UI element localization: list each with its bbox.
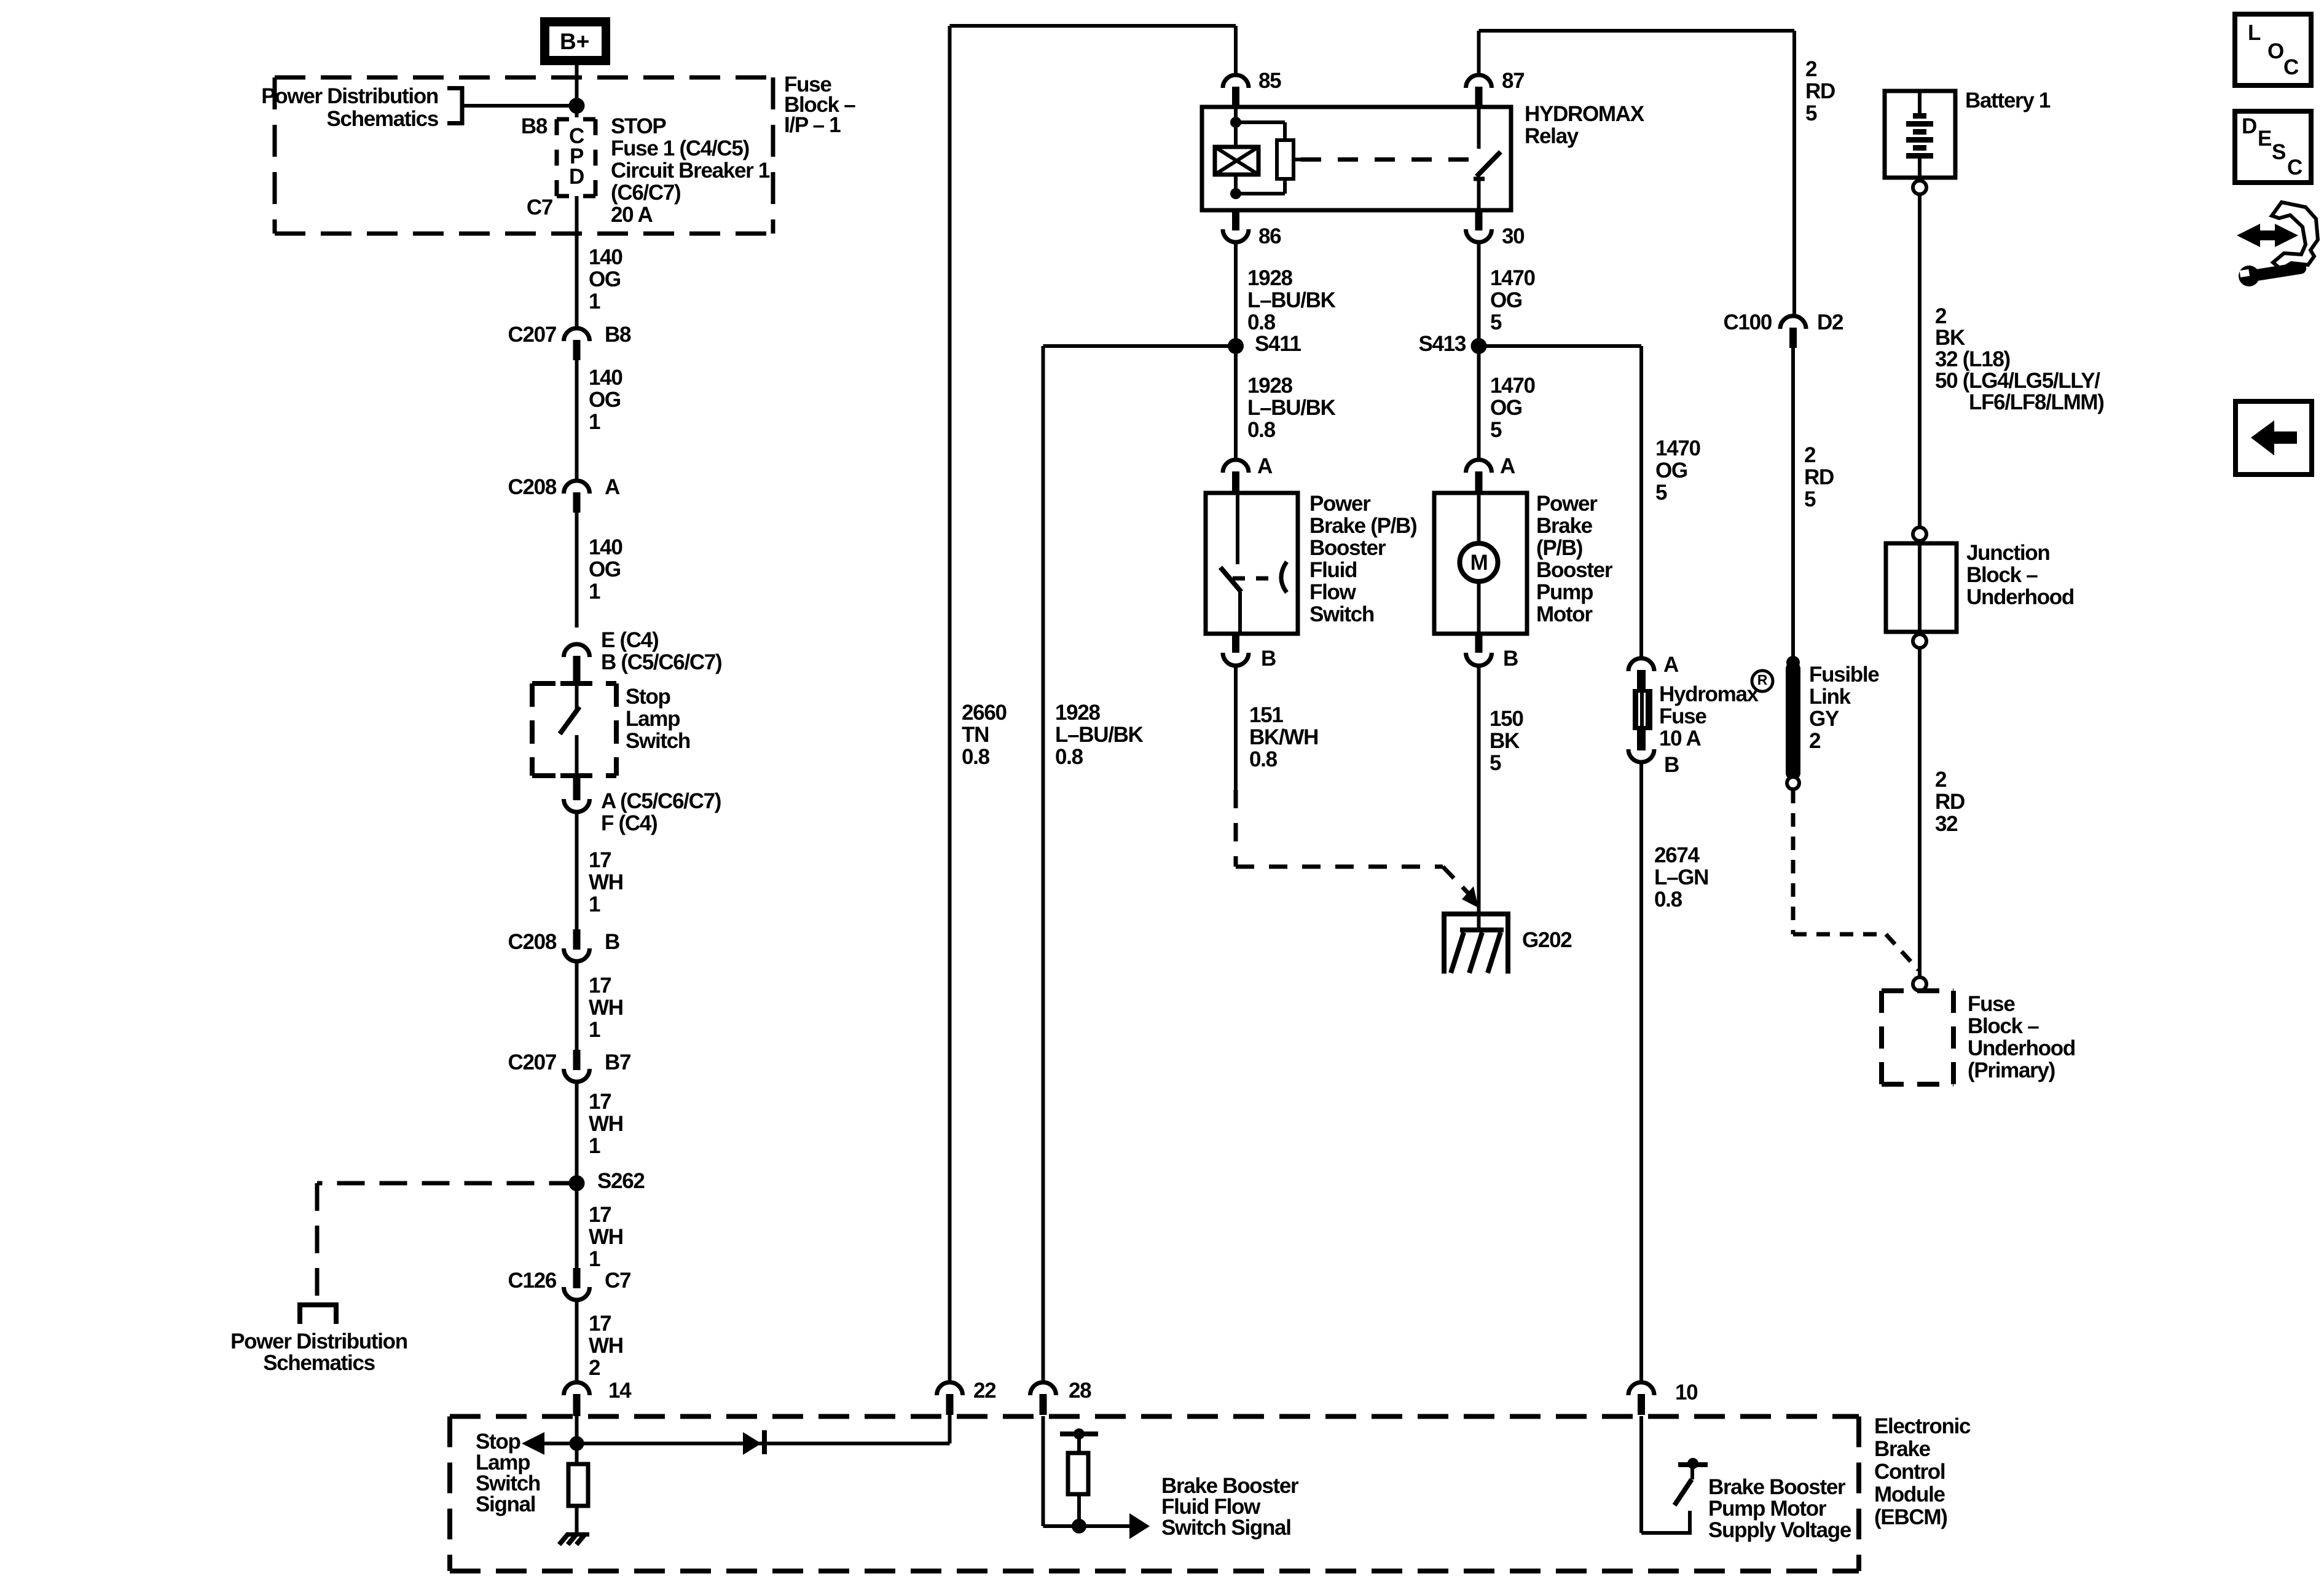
svg-text:Power: Power <box>1536 492 1598 516</box>
svg-text:L–BU/BK: L–BU/BK <box>1055 723 1144 747</box>
svg-text:C208: C208 <box>508 930 557 954</box>
svg-text:L: L <box>2248 21 2261 45</box>
svg-text:HYDROMAX: HYDROMAX <box>1525 102 1645 126</box>
svg-text:Signal: Signal <box>476 1492 535 1516</box>
svg-text:Block –: Block – <box>1966 563 2038 587</box>
svg-text:F (C4): F (C4) <box>601 811 657 835</box>
svg-text:L–BU/BK: L–BU/BK <box>1247 396 1336 420</box>
svg-text:30: 30 <box>1502 224 1525 248</box>
svg-text:Pump: Pump <box>1536 580 1593 604</box>
svg-text:1: 1 <box>589 580 600 604</box>
svg-text:LF6/LF8/LMM): LF6/LF8/LMM) <box>1969 390 2104 414</box>
svg-text:Power: Power <box>1309 492 1371 516</box>
svg-text:WH: WH <box>589 1334 623 1358</box>
svg-text:C100: C100 <box>1724 310 1772 334</box>
svg-text:C207: C207 <box>508 323 556 347</box>
svg-text:WH: WH <box>589 996 623 1020</box>
svg-text:1: 1 <box>589 1247 600 1271</box>
svg-text:0.8: 0.8 <box>1247 310 1276 334</box>
svg-text:C207: C207 <box>508 1050 556 1074</box>
svg-text:A (C5/C6/C7): A (C5/C6/C7) <box>601 789 721 813</box>
svg-text:17: 17 <box>589 974 611 998</box>
svg-text:Link: Link <box>1809 685 1851 709</box>
svg-text:Fuse: Fuse <box>1968 992 2015 1016</box>
svg-text:B (C5/C6/C7): B (C5/C6/C7) <box>601 650 721 674</box>
svg-text:Control: Control <box>1874 1460 1945 1484</box>
svg-text:10: 10 <box>1675 1380 1698 1404</box>
svg-text:E (C4): E (C4) <box>601 628 658 652</box>
svg-text:R: R <box>1757 672 1768 688</box>
svg-text:Power Distribution: Power Distribution <box>261 84 438 108</box>
svg-text:1470: 1470 <box>1490 266 1535 290</box>
svg-text:L–BU/BK: L–BU/BK <box>1247 288 1336 312</box>
svg-text:5: 5 <box>1805 101 1817 125</box>
svg-text:B: B <box>605 930 619 954</box>
svg-text:Relay: Relay <box>1525 124 1579 148</box>
svg-text:32: 32 <box>1935 812 1958 836</box>
svg-text:Underhood: Underhood <box>1966 585 2074 609</box>
svg-text:17: 17 <box>589 848 611 872</box>
svg-text:14: 14 <box>608 1379 632 1403</box>
svg-text:TN: TN <box>962 723 989 747</box>
svg-text:WH: WH <box>589 870 623 894</box>
svg-text:Lamp: Lamp <box>626 707 680 731</box>
svg-text:WH: WH <box>589 1112 623 1136</box>
svg-text:0.8: 0.8 <box>962 745 990 769</box>
svg-text:Pump Motor: Pump Motor <box>1708 1497 1827 1521</box>
svg-text:Schematics: Schematics <box>326 107 438 131</box>
svg-text:Power Distribution: Power Distribution <box>230 1329 407 1353</box>
svg-text:Booster: Booster <box>1309 536 1386 560</box>
svg-text:Brake: Brake <box>1874 1437 1931 1461</box>
svg-text:OG: OG <box>589 267 621 291</box>
svg-text:RD: RD <box>1804 465 1834 489</box>
svg-text:20 A: 20 A <box>611 203 653 227</box>
svg-text:OG: OG <box>1490 396 1522 420</box>
svg-text:2: 2 <box>1805 57 1817 81</box>
svg-text:22: 22 <box>973 1379 996 1403</box>
svg-text:A: A <box>605 475 620 499</box>
svg-text:L–GN: L–GN <box>1654 865 1708 889</box>
svg-text:Electronic: Electronic <box>1874 1414 1971 1438</box>
svg-text:B8: B8 <box>521 114 548 138</box>
svg-text:2: 2 <box>1935 304 1947 328</box>
svg-text:5: 5 <box>1490 310 1502 334</box>
svg-text:Supply Voltage: Supply Voltage <box>1708 1518 1851 1542</box>
svg-text:C208: C208 <box>508 475 557 499</box>
svg-text:OG: OG <box>1655 459 1687 482</box>
svg-text:Fuse: Fuse <box>1659 704 1706 728</box>
svg-text:B: B <box>1503 647 1518 671</box>
svg-text:D: D <box>2242 114 2257 138</box>
svg-text:O: O <box>2267 39 2284 63</box>
svg-text:Circuit Breaker 1: Circuit Breaker 1 <box>611 159 770 183</box>
svg-text:0.8: 0.8 <box>1055 745 1083 769</box>
svg-text:2: 2 <box>589 1356 600 1380</box>
svg-text:5: 5 <box>1490 751 1501 775</box>
svg-text:A: A <box>1257 454 1273 478</box>
svg-text:B: B <box>1261 647 1276 671</box>
svg-text:Brake Booster: Brake Booster <box>1708 1475 1846 1499</box>
svg-text:RD: RD <box>1805 79 1835 103</box>
svg-text:S413: S413 <box>1418 332 1466 356</box>
svg-text:RD: RD <box>1935 790 1965 814</box>
svg-text:1: 1 <box>589 1134 600 1158</box>
svg-text:S: S <box>2272 140 2286 164</box>
svg-text:OG: OG <box>1490 288 1522 312</box>
svg-text:151: 151 <box>1249 703 1283 727</box>
svg-text:BK: BK <box>1935 326 1965 350</box>
svg-text:Switch Signal: Switch Signal <box>1161 1516 1291 1540</box>
svg-text:(EBCM): (EBCM) <box>1874 1505 1947 1529</box>
svg-text:STOP: STOP <box>611 114 666 138</box>
svg-text:28: 28 <box>1069 1379 1091 1403</box>
svg-text:(P/B): (P/B) <box>1536 536 1582 560</box>
svg-text:86: 86 <box>1258 224 1281 248</box>
svg-text:WH: WH <box>589 1225 623 1249</box>
svg-text:Stop: Stop <box>626 685 670 709</box>
svg-text:S411: S411 <box>1255 332 1301 356</box>
svg-text:Underhood: Underhood <box>1968 1036 2075 1060</box>
svg-text:Motor: Motor <box>1536 602 1593 626</box>
svg-text:BK: BK <box>1490 729 1520 753</box>
svg-text:Fluid: Fluid <box>1309 558 1357 582</box>
svg-text:140: 140 <box>589 245 622 269</box>
svg-text:0.8: 0.8 <box>1249 747 1278 771</box>
svg-text:87: 87 <box>1502 69 1524 93</box>
svg-text:1470: 1470 <box>1655 436 1700 460</box>
svg-text:Module: Module <box>1874 1483 1945 1506</box>
svg-text:1: 1 <box>589 892 600 916</box>
svg-text:1928: 1928 <box>1247 266 1292 290</box>
svg-text:85: 85 <box>1258 69 1281 93</box>
svg-text:1: 1 <box>589 289 600 313</box>
svg-text:BK/WH: BK/WH <box>1249 725 1318 749</box>
svg-text:0.8: 0.8 <box>1247 418 1276 442</box>
svg-text:Fusible: Fusible <box>1809 663 1879 687</box>
svg-text:G202: G202 <box>1522 928 1572 952</box>
svg-text:Switch: Switch <box>626 729 690 753</box>
svg-text:17: 17 <box>589 1090 611 1114</box>
svg-text:Brake: Brake <box>1536 514 1593 538</box>
svg-text:OG: OG <box>589 388 621 412</box>
svg-text:B+: B+ <box>560 29 589 54</box>
svg-text:150: 150 <box>1490 707 1523 731</box>
svg-text:5: 5 <box>1655 481 1667 505</box>
svg-text:C: C <box>2287 156 2302 179</box>
svg-text:2: 2 <box>1804 443 1816 467</box>
svg-text:140: 140 <box>589 535 622 559</box>
svg-text:17: 17 <box>589 1312 611 1336</box>
svg-text:Brake (P/B): Brake (P/B) <box>1309 514 1416 538</box>
svg-text:1: 1 <box>589 410 600 434</box>
svg-text:B: B <box>1664 753 1679 777</box>
svg-text:B8: B8 <box>605 323 631 347</box>
svg-text:2674: 2674 <box>1654 843 1700 867</box>
svg-text:I/P – 1: I/P – 1 <box>784 113 841 137</box>
svg-text:Hydromax: Hydromax <box>1659 682 1759 706</box>
svg-text:E: E <box>2258 127 2272 151</box>
svg-text:Battery 1: Battery 1 <box>1965 89 2051 112</box>
svg-text:C: C <box>2283 55 2299 79</box>
svg-text:Switch: Switch <box>1309 602 1374 626</box>
svg-text:OG: OG <box>589 557 621 581</box>
svg-text:10 A: 10 A <box>1659 726 1701 750</box>
svg-text:C7: C7 <box>527 195 552 219</box>
svg-text:0.8: 0.8 <box>1654 888 1682 912</box>
svg-text:S262: S262 <box>597 1169 645 1193</box>
svg-text:50 (LG4/LG5/LLY/: 50 (LG4/LG5/LLY/ <box>1935 369 2100 393</box>
svg-text:17: 17 <box>589 1203 611 1227</box>
svg-text:(C6/C7): (C6/C7) <box>611 181 680 205</box>
svg-text:5: 5 <box>1804 487 1816 511</box>
svg-text:B7: B7 <box>605 1050 630 1074</box>
svg-text:(Primary): (Primary) <box>1968 1058 2055 1082</box>
svg-text:Block –: Block – <box>1968 1014 2039 1038</box>
svg-text:Booster: Booster <box>1536 558 1613 582</box>
svg-text:D: D <box>569 165 584 189</box>
svg-text:1: 1 <box>589 1018 600 1042</box>
svg-text:1470: 1470 <box>1490 374 1535 398</box>
svg-text:Flow: Flow <box>1309 580 1357 604</box>
svg-text:Schematics: Schematics <box>263 1351 375 1375</box>
svg-text:M: M <box>1470 551 1488 575</box>
svg-text:Junction: Junction <box>1966 541 2049 565</box>
svg-text:2660: 2660 <box>962 701 1007 725</box>
svg-text:140: 140 <box>589 366 622 390</box>
svg-text:32 (L18): 32 (L18) <box>1935 347 2010 371</box>
svg-text:GY: GY <box>1809 707 1839 731</box>
svg-text:C7: C7 <box>605 1269 630 1293</box>
svg-text:2: 2 <box>1935 768 1947 792</box>
svg-text:Fuse 1 (C4/C5): Fuse 1 (C4/C5) <box>611 136 749 160</box>
svg-text:2: 2 <box>1809 729 1821 753</box>
svg-text:D2: D2 <box>1817 310 1843 334</box>
svg-text:C126: C126 <box>508 1269 557 1293</box>
svg-text:A: A <box>1663 653 1679 677</box>
svg-text:5: 5 <box>1490 418 1502 442</box>
svg-text:1928: 1928 <box>1247 374 1292 398</box>
svg-text:A: A <box>1500 454 1515 478</box>
svg-text:1928: 1928 <box>1055 701 1100 725</box>
